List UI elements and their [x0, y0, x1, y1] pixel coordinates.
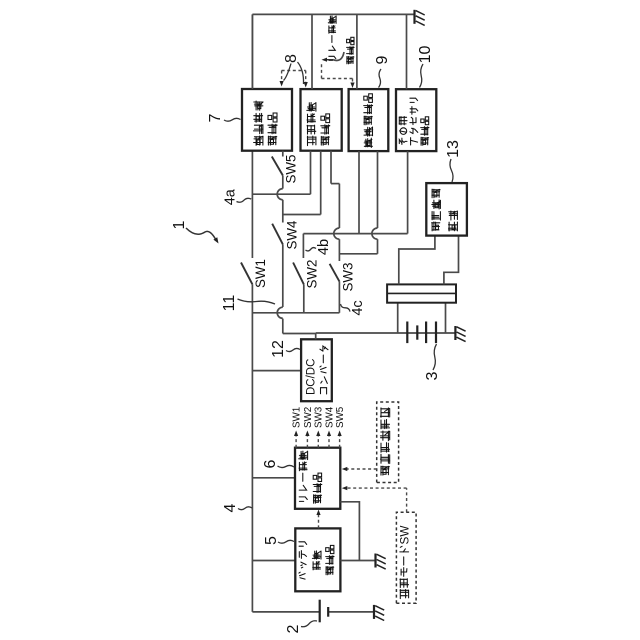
- switch SW4: [272, 224, 283, 245]
- svg-text:SW2: SW2: [305, 259, 320, 288]
- wire: junction drop to box8 second input: [283, 214, 321, 216]
- wire: main power line 4 (horizontal bus): [251, 284, 253, 612]
- switch SW1: [241, 263, 252, 285]
- svg-text:2: 2: [285, 624, 302, 633]
- dashed control line to box7 and box8: [282, 70, 306, 72]
- leader 9: [379, 69, 382, 88]
- wire: box7 right to rail: [251, 14, 253, 89]
- arrow 1: [186, 228, 216, 240]
- svg-text:3: 3: [424, 371, 441, 380]
- battery 2 plates: [319, 600, 321, 623]
- wire: SW2 branch from 4c: [303, 284, 305, 313]
- svg-text:SW2: SW2: [303, 407, 314, 428]
- wire: box8 right to rail: [311, 14, 313, 89]
- wire: box9 second input, hop over 4b, to SW3 node: [377, 151, 379, 228]
- svg-text:5: 5: [263, 536, 280, 545]
- ground (battery 2): [373, 605, 375, 619]
- box 13 external charging equipment: [426, 183, 467, 236]
- dashed control arrow SW2: [306, 435, 308, 448]
- leader 4a: [237, 198, 252, 202]
- label relay-controlled component annotation: [329, 59, 333, 61]
- box 7 vehicle-running electrical component: [242, 89, 292, 151]
- wire: node 4c (bus down to SW2/SW3): [252, 312, 339, 314]
- dashed control arrow SW1: [295, 435, 297, 448]
- schematic drawn in readable orientation, rotated -90deg to match page: [171, 10, 467, 634]
- leader 4: [238, 507, 252, 510]
- wire: node 4a branch (bus to box8 input): [252, 193, 310, 195]
- svg-text:1: 1: [171, 220, 188, 229]
- dashed control arrow SW5: [339, 435, 341, 448]
- switch SW5: [272, 157, 283, 176]
- wire: battery line to connector left pins: [397, 303, 399, 333]
- svg-text:6: 6: [262, 459, 279, 468]
- svg-text:4: 4: [222, 503, 239, 512]
- svg-text:SW5: SW5: [335, 406, 346, 428]
- leader 4c: [341, 304, 351, 312]
- dashed control arrow SW3: [317, 435, 319, 448]
- svg-text:4c: 4c: [350, 300, 366, 315]
- dashed arrow box5 to box6: [318, 514, 320, 529]
- ground (box5/box6): [374, 554, 376, 568]
- dashed box: air-conditioning mode SW: [396, 512, 416, 603]
- wire: bus to box 6: [252, 477, 295, 479]
- box 5 battery control electrical component: [295, 528, 340, 591]
- connector (charging inlet): [387, 284, 456, 302]
- svg-text:SW1: SW1: [292, 407, 303, 428]
- svg-text:SW1: SW1: [253, 259, 268, 288]
- leader 6: [278, 465, 295, 467]
- svg-text:4b: 4b: [316, 239, 332, 255]
- dashed box: power start operation: [377, 402, 399, 483]
- svg-text:SW3: SW3: [314, 406, 325, 428]
- wire: SW4 corner down to battery 3 and ground: [283, 333, 316, 335]
- box 10 other accessory electrical component: [396, 89, 436, 151]
- wire: node 4b (SW2 output down to box10): [303, 233, 407, 235]
- wire: box6 to shared ground: [340, 502, 359, 561]
- svg-text:9: 9: [374, 55, 391, 64]
- wire: box5 to ground: [340, 560, 375, 562]
- wire: SW4 branch with hop over 4c: [282, 319, 284, 334]
- box 6 relay control electrical component: [295, 448, 340, 509]
- leader 4b: [306, 248, 317, 251]
- dashed control line to box9: [321, 64, 323, 79]
- switch SW2: [293, 263, 304, 285]
- battery 3 plates: [406, 322, 408, 344]
- svg-text:10: 10: [417, 46, 434, 64]
- leader 12: [286, 348, 300, 351]
- wire: ground rail (right): [252, 13, 414, 15]
- wire: bus to DC/DC: [252, 370, 301, 372]
- svg-text:13: 13: [445, 140, 462, 158]
- leader 2: [301, 621, 317, 627]
- box 9 notification electrical component: [349, 89, 389, 151]
- arrow: annotation pointer: [333, 52, 344, 60]
- svg-text:SW4: SW4: [285, 220, 300, 250]
- wire: DC/DC right stub: [315, 333, 317, 339]
- leader 3: [433, 344, 437, 370]
- dashed route: AC mode SW to box6: [406, 488, 408, 512]
- svg-text:8: 8: [283, 54, 300, 63]
- wire: box9 first input to 4b: [358, 151, 360, 234]
- wire: box9 right to rail: [356, 14, 358, 89]
- svg-text:SW5: SW5: [284, 154, 299, 183]
- ground (rail): [413, 10, 415, 24]
- svg-text:4a: 4a: [223, 188, 239, 205]
- leader 5: [278, 540, 294, 543]
- wire: SW5 branch with hop over 4a: [282, 200, 284, 215]
- wire: bus to box 5: [252, 560, 295, 562]
- wire: SW3 branch, hop over 4b, jog to box8 third input: [338, 281, 340, 312]
- wire: connector right pins to box 13: [399, 236, 435, 285]
- switch SW3: [330, 264, 340, 282]
- svg-text:SW3: SW3: [341, 262, 356, 291]
- leader 7: [224, 118, 241, 121]
- dashed arrow: power start to box6: [346, 468, 377, 470]
- svg-text:11: 11: [221, 295, 238, 312]
- leader 8 to arrows: [284, 64, 292, 81]
- wire: bus left end down to battery 2: [252, 611, 319, 613]
- svg-text:12: 12: [270, 340, 287, 358]
- box 12 DC/DC converter: [301, 339, 332, 401]
- svg-text:7: 7: [207, 113, 224, 122]
- box 8 air-conditioning control electrical component: [301, 89, 342, 151]
- dashed control arrow SW4: [328, 435, 330, 448]
- leader 11: [238, 299, 276, 304]
- leader 13: [450, 159, 453, 182]
- leader 10: [420, 64, 424, 88]
- svg-text:DC/DC: DC/DC: [306, 359, 318, 395]
- wire: box10 right to rail: [406, 14, 408, 89]
- ground (battery 3): [454, 326, 456, 340]
- svg-text:SW4: SW4: [324, 406, 335, 428]
- svg-text:SW: SW: [398, 525, 411, 545]
